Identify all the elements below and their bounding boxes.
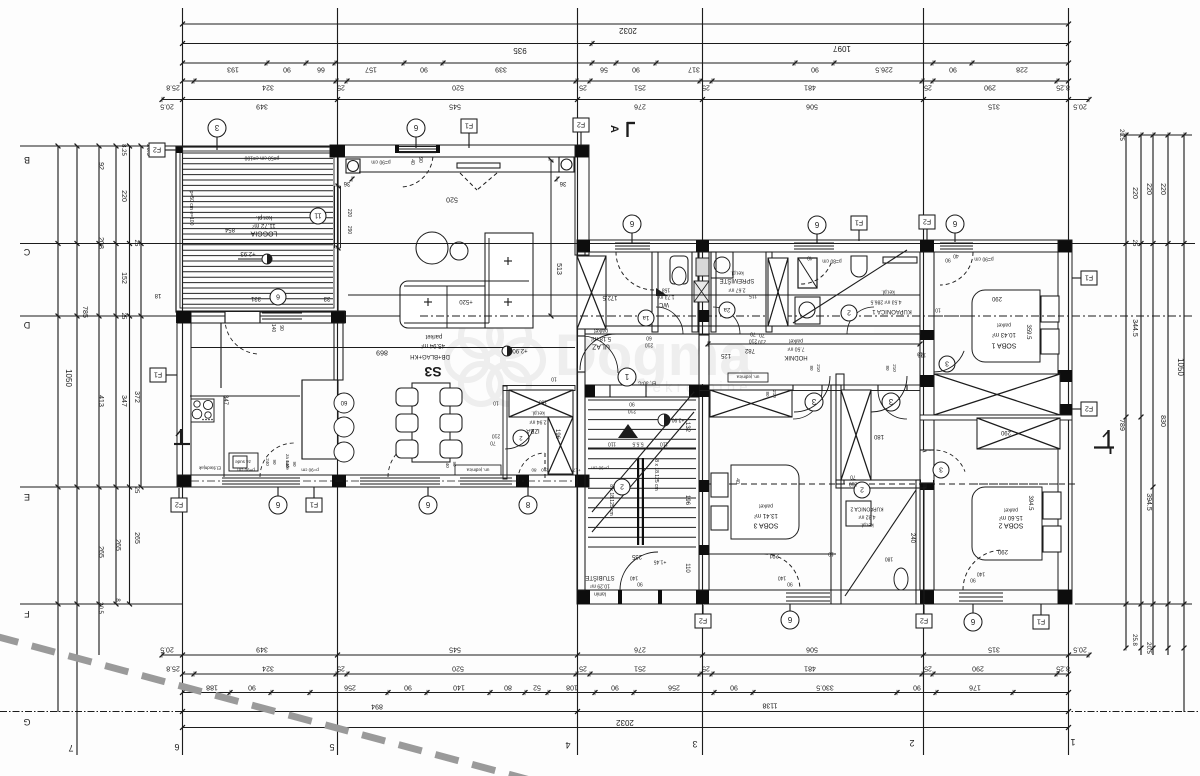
svg-text:ker.pl.: ker.pl. <box>531 409 544 415</box>
svg-text:F1: F1 <box>855 219 863 226</box>
svg-text:parket: parket <box>758 502 773 508</box>
svg-text:un. jedinica: un. jedinica <box>736 374 759 379</box>
svg-text:25: 25 <box>133 487 139 494</box>
svg-text:C: C <box>23 247 30 257</box>
svg-text:193: 193 <box>227 66 239 73</box>
svg-text:210: 210 <box>772 390 777 398</box>
svg-text:6: 6 <box>952 219 957 228</box>
svg-text:240: 240 <box>909 533 915 544</box>
svg-text:196: 196 <box>684 495 690 506</box>
svg-text:180: 180 <box>885 555 894 561</box>
svg-text:2.94 m²: 2.94 m² <box>529 418 546 424</box>
svg-text:2: 2 <box>620 483 624 490</box>
svg-text:F2: F2 <box>153 146 161 153</box>
svg-text:140: 140 <box>270 324 276 333</box>
svg-text:F2: F2 <box>577 121 585 128</box>
svg-text:6: 6 <box>275 500 280 509</box>
svg-text:10: 10 <box>828 550 834 556</box>
svg-text:210: 210 <box>758 338 767 344</box>
svg-text:276: 276 <box>634 646 646 653</box>
svg-text:90: 90 <box>417 157 423 163</box>
svg-text:F2: F2 <box>1085 405 1093 412</box>
svg-text:25: 25 <box>924 84 932 91</box>
svg-text:545: 545 <box>449 103 461 110</box>
svg-text:152: 152 <box>120 272 127 284</box>
svg-text:F: F <box>24 609 30 619</box>
svg-text:10.43 m²: 10.43 m² <box>992 331 1016 337</box>
svg-text:90: 90 <box>611 684 619 691</box>
svg-text:347: 347 <box>222 395 228 406</box>
svg-text:1050: 1050 <box>1176 358 1185 376</box>
svg-text:70: 70 <box>490 439 496 445</box>
svg-text:347: 347 <box>120 395 127 407</box>
svg-text:25: 25 <box>579 665 587 672</box>
svg-text:506: 506 <box>806 103 818 110</box>
svg-text:25: 25 <box>1131 240 1137 247</box>
svg-text:un. jedinica: un. jedinica <box>466 467 489 472</box>
svg-text:10: 10 <box>493 399 499 405</box>
svg-text:1050: 1050 <box>64 369 73 387</box>
svg-text:208: 208 <box>97 237 104 249</box>
svg-text:132: 132 <box>684 422 690 433</box>
svg-text:210: 210 <box>749 337 758 343</box>
svg-text:228: 228 <box>1016 66 1028 73</box>
svg-text:251: 251 <box>634 84 646 91</box>
svg-text:E: E <box>24 492 30 502</box>
svg-text:545: 545 <box>449 646 461 653</box>
svg-text:92: 92 <box>97 162 104 170</box>
svg-text:10.29 m²: 10.29 m² <box>590 582 610 588</box>
svg-text:220: 220 <box>1145 183 1152 195</box>
svg-text:157: 157 <box>365 66 377 73</box>
svg-text:349: 349 <box>256 103 268 110</box>
svg-text:El.štednjak: El.štednjak <box>198 465 221 470</box>
svg-text:36: 36 <box>343 180 350 186</box>
svg-text:256: 256 <box>344 684 356 691</box>
svg-text:854: 854 <box>224 226 235 232</box>
svg-text:SOBA 3: SOBA 3 <box>753 522 778 529</box>
svg-text:324: 324 <box>262 84 274 91</box>
svg-text:70: 70 <box>850 473 856 479</box>
svg-text:110: 110 <box>608 440 616 446</box>
svg-text:ker.pl.: ker.pl. <box>256 214 272 220</box>
svg-text:20.5: 20.5 <box>97 602 103 614</box>
svg-text:90: 90 <box>629 400 635 406</box>
svg-text:935: 935 <box>513 46 527 55</box>
svg-text:789: 789 <box>1118 419 1125 431</box>
svg-text:265: 265 <box>133 532 140 544</box>
svg-text:13.41 m²: 13.41 m² <box>754 512 778 518</box>
svg-text:F2: F2 <box>923 218 931 225</box>
svg-text:1: 1 <box>624 372 629 381</box>
svg-text:265: 265 <box>97 546 104 558</box>
svg-text:5: 5 <box>329 742 334 752</box>
svg-text:25.8: 25.8 <box>166 84 180 91</box>
svg-text:188: 188 <box>206 684 218 691</box>
svg-text:40: 40 <box>953 252 959 258</box>
svg-text:210: 210 <box>492 432 501 438</box>
svg-text:80: 80 <box>504 684 512 691</box>
svg-text:p=50 cm e=100: p=50 cm e=100 <box>244 154 279 160</box>
svg-text:3: 3 <box>945 360 949 367</box>
svg-text:324: 324 <box>262 665 274 672</box>
svg-text:1.73 m²: 1.73 m² <box>657 293 674 299</box>
svg-text:25.8: 25.8 <box>166 665 180 672</box>
svg-text:4: 4 <box>565 740 570 750</box>
svg-text:25: 25 <box>133 240 139 247</box>
svg-text:2: 2 <box>860 486 864 493</box>
svg-text:56: 56 <box>600 66 608 73</box>
svg-text:parket: parket <box>1003 506 1018 512</box>
svg-text:226.5: 226.5 <box>875 66 893 73</box>
svg-text:25.8: 25.8 <box>1131 634 1137 646</box>
svg-text:90: 90 <box>248 684 256 691</box>
svg-text:317: 317 <box>688 66 700 73</box>
svg-text:F2: F2 <box>175 501 183 508</box>
svg-text:lamin: lamin <box>594 590 606 596</box>
svg-text:2: 2 <box>847 309 851 316</box>
svg-text:25: 25 <box>702 665 710 672</box>
svg-text:349: 349 <box>256 646 268 653</box>
svg-text:220: 220 <box>1159 183 1166 195</box>
svg-text:331: 331 <box>250 295 261 301</box>
svg-text:D: D <box>23 320 30 330</box>
svg-text:90: 90 <box>283 66 291 73</box>
svg-text:894: 894 <box>371 703 383 710</box>
svg-text:EI, 30-C: EI, 30-C <box>637 379 656 385</box>
svg-text:za sude: za sude <box>235 459 251 464</box>
svg-text:8 x 18.125 cm: 8 x 18.125 cm <box>653 459 659 490</box>
svg-text:8: 8 <box>525 500 530 509</box>
svg-text:372: 372 <box>133 391 140 403</box>
svg-text:80: 80 <box>885 365 890 371</box>
svg-text:36: 36 <box>559 180 566 186</box>
svg-text:8 x 18.125 cm: 8 x 18.125 cm <box>608 484 614 515</box>
svg-text:F1: F1 <box>310 501 318 508</box>
svg-text:A: A <box>608 125 620 133</box>
svg-text:18: 18 <box>154 292 161 298</box>
svg-text:3: 3 <box>214 123 219 132</box>
svg-text:513: 513 <box>555 263 562 275</box>
svg-text:110: 110 <box>660 440 668 446</box>
svg-text:6: 6 <box>174 742 179 752</box>
svg-text:290: 290 <box>997 548 1008 554</box>
svg-text:F2: F2 <box>699 617 707 624</box>
svg-text:5.5.5: 5.5.5 <box>632 440 643 446</box>
svg-text:2: 2 <box>909 738 914 748</box>
svg-text:2032: 2032 <box>616 718 634 727</box>
svg-text:11: 11 <box>314 212 321 219</box>
svg-text:6: 6 <box>629 219 634 228</box>
svg-text:90: 90 <box>404 684 412 691</box>
svg-text:506: 506 <box>806 646 818 653</box>
svg-text:481: 481 <box>804 84 816 91</box>
svg-text:90: 90 <box>632 66 640 73</box>
svg-text:+2.90: +2.90 <box>671 416 684 422</box>
svg-text:11.72 m²: 11.72 m² <box>252 222 275 228</box>
svg-text:p=90 cm: p=90 cm <box>301 467 319 472</box>
svg-text:HODNIK: HODNIK <box>784 354 807 360</box>
svg-text:p=90 cm: p=90 cm <box>974 255 993 261</box>
svg-text:40: 40 <box>409 159 415 165</box>
svg-text:140: 140 <box>453 684 465 691</box>
svg-text:90: 90 <box>730 684 738 691</box>
svg-text:25: 25 <box>120 313 126 320</box>
svg-text:1a: 1a <box>642 314 649 320</box>
svg-text:339: 339 <box>495 66 507 73</box>
svg-text:p=90 cm: p=90 cm <box>371 158 390 164</box>
svg-text:2032: 2032 <box>619 26 637 35</box>
svg-text:90: 90 <box>811 66 819 73</box>
svg-text:256: 256 <box>668 684 680 691</box>
svg-text:520: 520 <box>452 84 464 91</box>
svg-text:7: 7 <box>68 743 73 753</box>
svg-text:F1: F1 <box>465 122 473 129</box>
svg-text:+2.90: +2.90 <box>512 347 528 353</box>
svg-text:394.5: 394.5 <box>1145 493 1152 511</box>
svg-text:330.5: 330.5 <box>816 684 834 691</box>
svg-text:25: 25 <box>579 84 587 91</box>
svg-text:140: 140 <box>778 574 787 580</box>
svg-text:80: 80 <box>809 365 814 371</box>
svg-text:2.67 m²: 2.67 m² <box>728 286 745 292</box>
svg-text:10: 10 <box>917 350 923 356</box>
svg-text:520: 520 <box>452 665 464 672</box>
svg-text:20.5: 20.5 <box>1073 103 1087 110</box>
svg-text:+1.45: +1.45 <box>653 558 666 564</box>
svg-text:20.5: 20.5 <box>160 103 174 110</box>
svg-text:8.25: 8.25 <box>1056 665 1070 672</box>
svg-text:108: 108 <box>566 684 578 691</box>
svg-text:ker.pl.: ker.pl. <box>730 269 743 275</box>
svg-text:ULAZ: ULAZ <box>591 343 610 350</box>
svg-text:STUBIŠTE: STUBIŠTE <box>585 574 614 581</box>
svg-text:220: 220 <box>1131 187 1138 199</box>
svg-text:2a: 2a <box>723 306 730 312</box>
svg-text:33: 33 <box>323 295 330 301</box>
svg-text:52: 52 <box>533 684 541 691</box>
svg-text:315: 315 <box>988 646 1000 653</box>
svg-text:785: 785 <box>81 306 88 318</box>
svg-text:6: 6 <box>425 500 430 509</box>
svg-text:830: 830 <box>1159 415 1166 427</box>
svg-text:60: 60 <box>646 334 652 340</box>
svg-text:70: 70 <box>750 330 756 336</box>
svg-text:10: 10 <box>935 306 941 312</box>
svg-text:344.5: 344.5 <box>1131 319 1138 337</box>
svg-text:196: 196 <box>554 429 560 440</box>
svg-text:F1: F1 <box>154 371 162 378</box>
svg-text:90: 90 <box>970 576 976 582</box>
svg-text:SOBA 1: SOBA 1 <box>991 342 1016 349</box>
svg-text:394.5: 394.5 <box>1027 495 1033 511</box>
svg-text:parket: parket <box>996 321 1011 327</box>
svg-text:90: 90 <box>420 66 428 73</box>
svg-text:413: 413 <box>97 395 104 407</box>
svg-text:290: 290 <box>991 295 1002 301</box>
svg-text:210: 210 <box>849 480 858 486</box>
svg-text:p=90 cm: p=90 cm <box>591 465 609 470</box>
svg-text:90: 90 <box>949 66 957 73</box>
svg-text:220: 220 <box>120 190 127 202</box>
svg-text:180: 180 <box>873 433 884 439</box>
svg-text:90: 90 <box>272 459 277 465</box>
svg-text:90: 90 <box>278 325 284 331</box>
svg-text:25: 25 <box>337 84 345 91</box>
svg-text:8.25: 8.25 <box>1056 84 1070 91</box>
svg-text:10: 10 <box>551 375 557 381</box>
svg-text:158: 158 <box>662 286 671 292</box>
svg-text:210: 210 <box>645 341 654 347</box>
svg-text:160: 160 <box>539 398 548 404</box>
svg-text:520: 520 <box>446 196 458 203</box>
svg-text:90: 90 <box>945 256 951 262</box>
svg-text:110: 110 <box>684 563 690 573</box>
svg-text:3: 3 <box>692 739 697 749</box>
svg-text:6: 6 <box>276 293 280 300</box>
svg-text:290: 290 <box>984 84 996 91</box>
svg-text:481: 481 <box>804 665 816 672</box>
svg-text:6: 6 <box>787 615 792 624</box>
svg-text:782: 782 <box>744 347 755 353</box>
svg-text:6: 6 <box>413 123 418 132</box>
svg-text:66: 66 <box>317 66 325 73</box>
svg-text:1097: 1097 <box>833 44 851 53</box>
svg-text:80: 80 <box>765 391 770 397</box>
svg-text:251: 251 <box>634 665 646 672</box>
svg-text:220: 220 <box>346 209 352 218</box>
svg-text:3: 3 <box>939 466 943 473</box>
svg-text:276: 276 <box>634 103 646 110</box>
svg-text:25: 25 <box>337 665 345 672</box>
svg-text:p=50 cm e=100: p=50 cm e=100 <box>188 191 194 226</box>
svg-text:parket: parket <box>593 327 608 333</box>
svg-text:70: 70 <box>759 331 765 337</box>
svg-text:p=80 cm: p=80 cm <box>822 257 841 263</box>
svg-text:+2.93: +2.93 <box>240 250 256 256</box>
svg-text:F2: F2 <box>920 617 928 624</box>
svg-text:4.53 m² 286.5: 4.53 m² 286.5 <box>870 298 901 304</box>
svg-text:90: 90 <box>292 461 297 467</box>
svg-text:315: 315 <box>988 103 1000 110</box>
svg-text:7.50 m²: 7.50 m² <box>787 345 804 351</box>
svg-text:60: 60 <box>340 399 347 405</box>
svg-text:290: 290 <box>346 226 352 235</box>
svg-text:90: 90 <box>787 580 793 586</box>
svg-text:90: 90 <box>913 684 921 691</box>
svg-text:F1: F1 <box>1037 618 1045 625</box>
svg-text:1138: 1138 <box>762 702 777 709</box>
svg-text:15.60 m²: 15.60 m² <box>999 514 1023 520</box>
svg-text:25: 25 <box>924 665 932 672</box>
svg-text:1: 1 <box>1070 737 1075 747</box>
svg-text:6: 6 <box>970 617 975 626</box>
svg-text:125: 125 <box>720 352 731 358</box>
svg-text:G: G <box>23 717 30 727</box>
svg-text:+520: +520 <box>459 298 473 304</box>
svg-text:359.5: 359.5 <box>1025 324 1031 340</box>
svg-text:parket: parket <box>425 333 442 339</box>
svg-text:20.5: 20.5 <box>1118 129 1124 141</box>
svg-text:210: 210 <box>892 364 897 372</box>
svg-text:KUPAONICA 2: KUPAONICA 2 <box>850 505 883 511</box>
svg-text:DB+BLAG+KH: DB+BLAG+KH <box>410 353 450 359</box>
svg-text:4.32 m²: 4.32 m² <box>858 513 875 519</box>
svg-text:20.5: 20.5 <box>160 646 174 653</box>
svg-text:115: 115 <box>749 292 757 298</box>
svg-text:6: 6 <box>814 220 819 229</box>
svg-text:40: 40 <box>734 478 740 484</box>
svg-text:869: 869 <box>376 349 388 356</box>
svg-text:SPREMIŠTE: SPREMIŠTE <box>720 277 755 284</box>
svg-text:140: 140 <box>285 460 290 468</box>
svg-text:S3: S3 <box>424 364 441 380</box>
svg-text:176: 176 <box>969 684 981 691</box>
svg-text:210: 210 <box>628 407 637 413</box>
svg-text:45.94 m²: 45.94 m² <box>421 342 445 348</box>
svg-text:90: 90 <box>452 461 457 467</box>
svg-text:parket: parket <box>788 337 803 343</box>
svg-text:B: B <box>24 155 30 165</box>
svg-text:140: 140 <box>977 570 986 576</box>
svg-text:20.5: 20.5 <box>1145 642 1151 654</box>
svg-text:20.5: 20.5 <box>1073 646 1087 653</box>
svg-text:8.25: 8.25 <box>120 144 126 156</box>
svg-text:40: 40 <box>807 254 813 260</box>
svg-text:140: 140 <box>630 574 639 580</box>
svg-text:210: 210 <box>816 364 821 372</box>
svg-text:265: 265 <box>114 539 121 551</box>
svg-text:WC: WC <box>658 301 669 307</box>
svg-text:LOGGIA: LOGGIA <box>250 230 277 237</box>
svg-text:ker.pl.: ker.pl. <box>881 288 894 294</box>
svg-text:240: 240 <box>265 458 270 466</box>
svg-text:KUPAONICA 1: KUPAONICA 1 <box>872 308 912 314</box>
svg-text:290: 290 <box>972 665 984 672</box>
svg-text:290: 290 <box>1000 429 1011 435</box>
svg-text:80: 80 <box>531 467 537 472</box>
svg-text:F1: F1 <box>1085 274 1093 281</box>
svg-text:SOBA 2: SOBA 2 <box>998 522 1023 529</box>
svg-text:25: 25 <box>702 84 710 91</box>
